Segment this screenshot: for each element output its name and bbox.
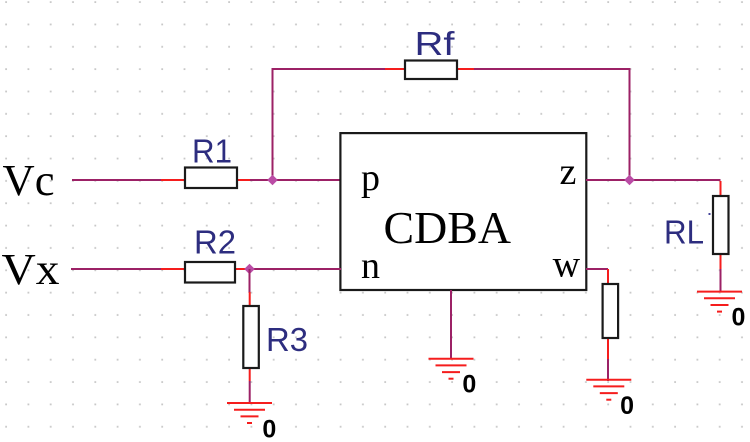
- CDBA block: [340, 133, 586, 290]
- svg-text:0: 0: [620, 392, 634, 420]
- svg-text:Rf: Rf: [415, 25, 456, 62]
- svg-text:CDBA: CDBA: [384, 202, 512, 253]
- svg-text:n: n: [361, 245, 380, 287]
- ground: [586, 380, 634, 420]
- junction node p: [267, 175, 278, 186]
- ground: [429, 359, 477, 399]
- svg-text:R3: R3: [266, 321, 308, 358]
- svg-text:Vx: Vx: [2, 245, 60, 294]
- resistor: [603, 269, 619, 359]
- wire: [607, 359, 609, 381]
- resistor Rf: [385, 25, 475, 79]
- wire: [586, 268, 608, 270]
- wire: [272, 69, 274, 181]
- wire: [249, 381, 251, 404]
- svg-text:w: w: [553, 244, 581, 286]
- wire: [248, 268, 341, 270]
- svg-text:Vc: Vc: [3, 156, 55, 205]
- wire: [72, 179, 163, 181]
- resistor RL: [664, 181, 729, 269]
- svg-text:RL: RL: [664, 214, 704, 251]
- wire: [71, 268, 163, 270]
- svg-text:z: z: [560, 151, 577, 193]
- junction node z: [624, 175, 635, 186]
- junction node n: [244, 264, 255, 275]
- resistor R2: [161, 223, 248, 282]
- svg-text:0: 0: [462, 370, 476, 398]
- wire: [720, 269, 722, 292]
- wire: [272, 68, 387, 70]
- wire: [249, 269, 251, 293]
- resistor R3: [243, 292, 308, 381]
- svg-text:R2: R2: [194, 223, 236, 260]
- ground: [227, 403, 276, 442]
- wire: [450, 290, 452, 359]
- svg-text:0: 0: [262, 416, 276, 442]
- svg-text:R1: R1: [192, 133, 232, 170]
- ground: [697, 292, 745, 332]
- resistor R1: [161, 133, 250, 188]
- wire: [250, 179, 340, 181]
- svg-text:0: 0: [732, 303, 746, 331]
- svg-text:p: p: [361, 157, 380, 199]
- wire: [474, 69, 630, 181]
- wire: [586, 179, 721, 181]
